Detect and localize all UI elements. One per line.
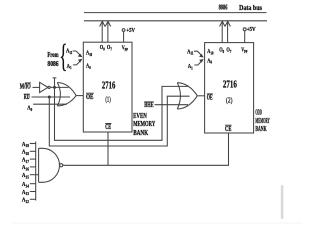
svg-text:MEMORY: MEMORY — [133, 120, 155, 128]
label A18 — [22, 149, 29, 156]
svg-text:A13: A13 — [22, 189, 29, 196]
junction on inverter output — [53, 86, 56, 89]
U1 +5V terminal — [122, 27, 135, 34]
bundle arrow A1 to U1 — [73, 59, 83, 65]
svg-text:M/IO: M/IO — [20, 82, 31, 90]
label EVEN MEMORY BANK — [133, 112, 155, 137]
label A1 (U1 bundle) — [67, 63, 72, 70]
svg-text:A17: A17 — [22, 157, 29, 164]
OR gate G1 — [57, 83, 76, 107]
inverter (M/IO) — [40, 82, 51, 92]
svg-text:A15: A15 — [22, 173, 29, 180]
svg-text:A18: A18 — [22, 149, 29, 156]
wire G1 output to U1 OE — [76, 95, 83, 97]
wire W1: inverter junction down and right to G2 top input — [55, 86, 189, 140]
svg-text:BANK: BANK — [255, 125, 267, 133]
U2 pin OE with overline — [207, 93, 213, 101]
label A11 (U1 bundle) — [66, 48, 72, 55]
svg-text:A0: A0 — [207, 58, 212, 65]
svg-text:2716: 2716 — [102, 81, 115, 92]
svg-text:CE: CE — [225, 125, 232, 133]
svg-text:A16: A16 — [22, 165, 29, 172]
U2 pin O7 — [226, 47, 231, 54]
svg-text:8086: 8086 — [47, 60, 59, 68]
svg-text:A12: A12 — [22, 197, 29, 204]
tick A16 — [30, 166, 36, 168]
svg-text:2716: 2716 — [223, 79, 237, 90]
U2 +5V terminal — [243, 26, 256, 33]
svg-text:O0: O0 — [219, 47, 224, 54]
bundle arrow A1 to U2 — [194, 59, 204, 65]
U1 Vpp wire — [123, 31, 125, 42]
label A12 — [22, 197, 29, 204]
svg-text:(2): (2) — [226, 95, 233, 104]
label A0 (gate input) — [27, 105, 32, 112]
svg-text:A0: A0 — [27, 105, 32, 112]
svg-text:A19: A19 — [22, 141, 29, 148]
U2 data arrow 2 to bus — [225, 21, 231, 42]
wire M/IO to inverter — [33, 86, 40, 88]
OR gate G2 — [177, 83, 197, 109]
label BHE with overline — [144, 101, 154, 109]
U2 pin A0 — [207, 58, 212, 65]
svg-text:A1: A1 — [67, 63, 72, 70]
tick A14 — [30, 183, 36, 185]
svg-text:A1: A1 — [188, 63, 193, 70]
label A1 (U2 bundle) — [188, 63, 193, 70]
wire BHE to OR2 — [155, 104, 189, 106]
wire RD to OR1 — [32, 96, 71, 98]
svg-text:CE: CE — [105, 123, 111, 131]
brace for address bundle U1 — [59, 38, 67, 74]
svg-text:A10: A10 — [86, 50, 92, 57]
svg-text:Data bus: Data bus — [239, 3, 262, 12]
EPROM U1 2716 (1) body — [83, 42, 132, 132]
U2 Vpp wire — [244, 31, 246, 43]
wire NAND output to U2 CE — [63, 133, 229, 165]
svg-text:A10: A10 — [207, 49, 213, 56]
U1 pin Vpp — [122, 45, 129, 52]
U1 data arrow 1 to bus — [100, 21, 105, 42]
wire inverter output to OR1 — [50, 86, 68, 88]
svg-text:A11: A11 — [66, 48, 72, 55]
tick A18 — [30, 150, 36, 152]
U1 data arrow 2 to bus — [105, 21, 111, 42]
svg-text:+5V: +5V — [126, 27, 135, 34]
U2 pin Vpp — [241, 47, 248, 54]
U2 data arrow 1 to bus — [220, 21, 226, 42]
tick A19 — [30, 143, 36, 145]
T stub above junction — [53, 78, 57, 88]
U1 pin CE with overline — [105, 123, 111, 131]
wire A0 to OR1 — [33, 103, 67, 105]
svg-text:ODD: ODD — [255, 109, 261, 117]
svg-text:(1): (1) — [105, 95, 111, 104]
tick A13 — [30, 191, 36, 193]
address input bus line (A19-A12) — [35, 142, 37, 201]
U1 pin A10 — [86, 50, 92, 57]
tick A12 — [30, 198, 36, 200]
faint scan smudge right — [281, 185, 284, 219]
U1 pin O0 — [100, 45, 105, 52]
bundle arrow A11 to U2 — [194, 51, 204, 57]
svg-text:BANK: BANK — [133, 129, 148, 137]
U2 pin O0 — [219, 47, 224, 54]
data bus bottom line — [84, 20, 267, 22]
label A15 — [22, 173, 29, 180]
wire U1 CE down to NAND output — [107, 132, 109, 165]
junction on RD wire — [48, 96, 51, 99]
tick A17 — [30, 158, 36, 160]
svg-text:OE: OE — [86, 93, 94, 101]
svg-text:MEMORY: MEMORY — [255, 117, 269, 125]
label ODD MEMORY BANK — [255, 109, 269, 134]
svg-text:From: From — [47, 51, 58, 59]
faint scan line bottom — [12, 222, 302, 225]
svg-text:OE: OE — [207, 93, 213, 101]
wire W2: RD junction down and right to G2 middle input — [49, 96, 189, 146]
svg-text:O7: O7 — [226, 47, 231, 54]
label M/IO with overline on IO — [20, 82, 31, 90]
bundle arrow A11 to U1 — [73, 51, 83, 57]
label A16 — [22, 165, 29, 172]
svg-text:A11: A11 — [187, 49, 193, 56]
label RD with overline — [24, 93, 30, 101]
label A19 — [22, 141, 29, 148]
svg-text:O7: O7 — [107, 45, 112, 52]
label From 8086 — [47, 51, 59, 68]
U1 pin O7 — [107, 45, 112, 52]
svg-text:8086: 8086 — [219, 2, 228, 11]
tick A15 (reaches gate) — [30, 174, 39, 176]
U2 pin A10 — [207, 49, 213, 56]
EPROM U2 2716 (2) body — [205, 43, 254, 133]
wire G2 output to U2 OE — [197, 95, 204, 97]
label A11 (U2 bundle) — [187, 49, 193, 56]
label A17 — [22, 157, 29, 164]
label A13 — [22, 189, 29, 196]
U1 pin OE with overline — [86, 93, 94, 101]
NAND decoder gate — [39, 148, 63, 182]
svg-text:O0: O0 — [100, 45, 105, 52]
U2 pin CE with overline — [225, 125, 232, 133]
svg-text:VPP: VPP — [122, 45, 129, 52]
svg-text:A14: A14 — [22, 182, 29, 189]
svg-text:VPP: VPP — [241, 47, 248, 54]
label A14 — [22, 182, 29, 189]
svg-text:A0: A0 — [86, 63, 91, 70]
data bus top line — [84, 12, 267, 14]
svg-text:+5V: +5V — [247, 26, 256, 33]
U1 pin A0 — [86, 63, 91, 70]
